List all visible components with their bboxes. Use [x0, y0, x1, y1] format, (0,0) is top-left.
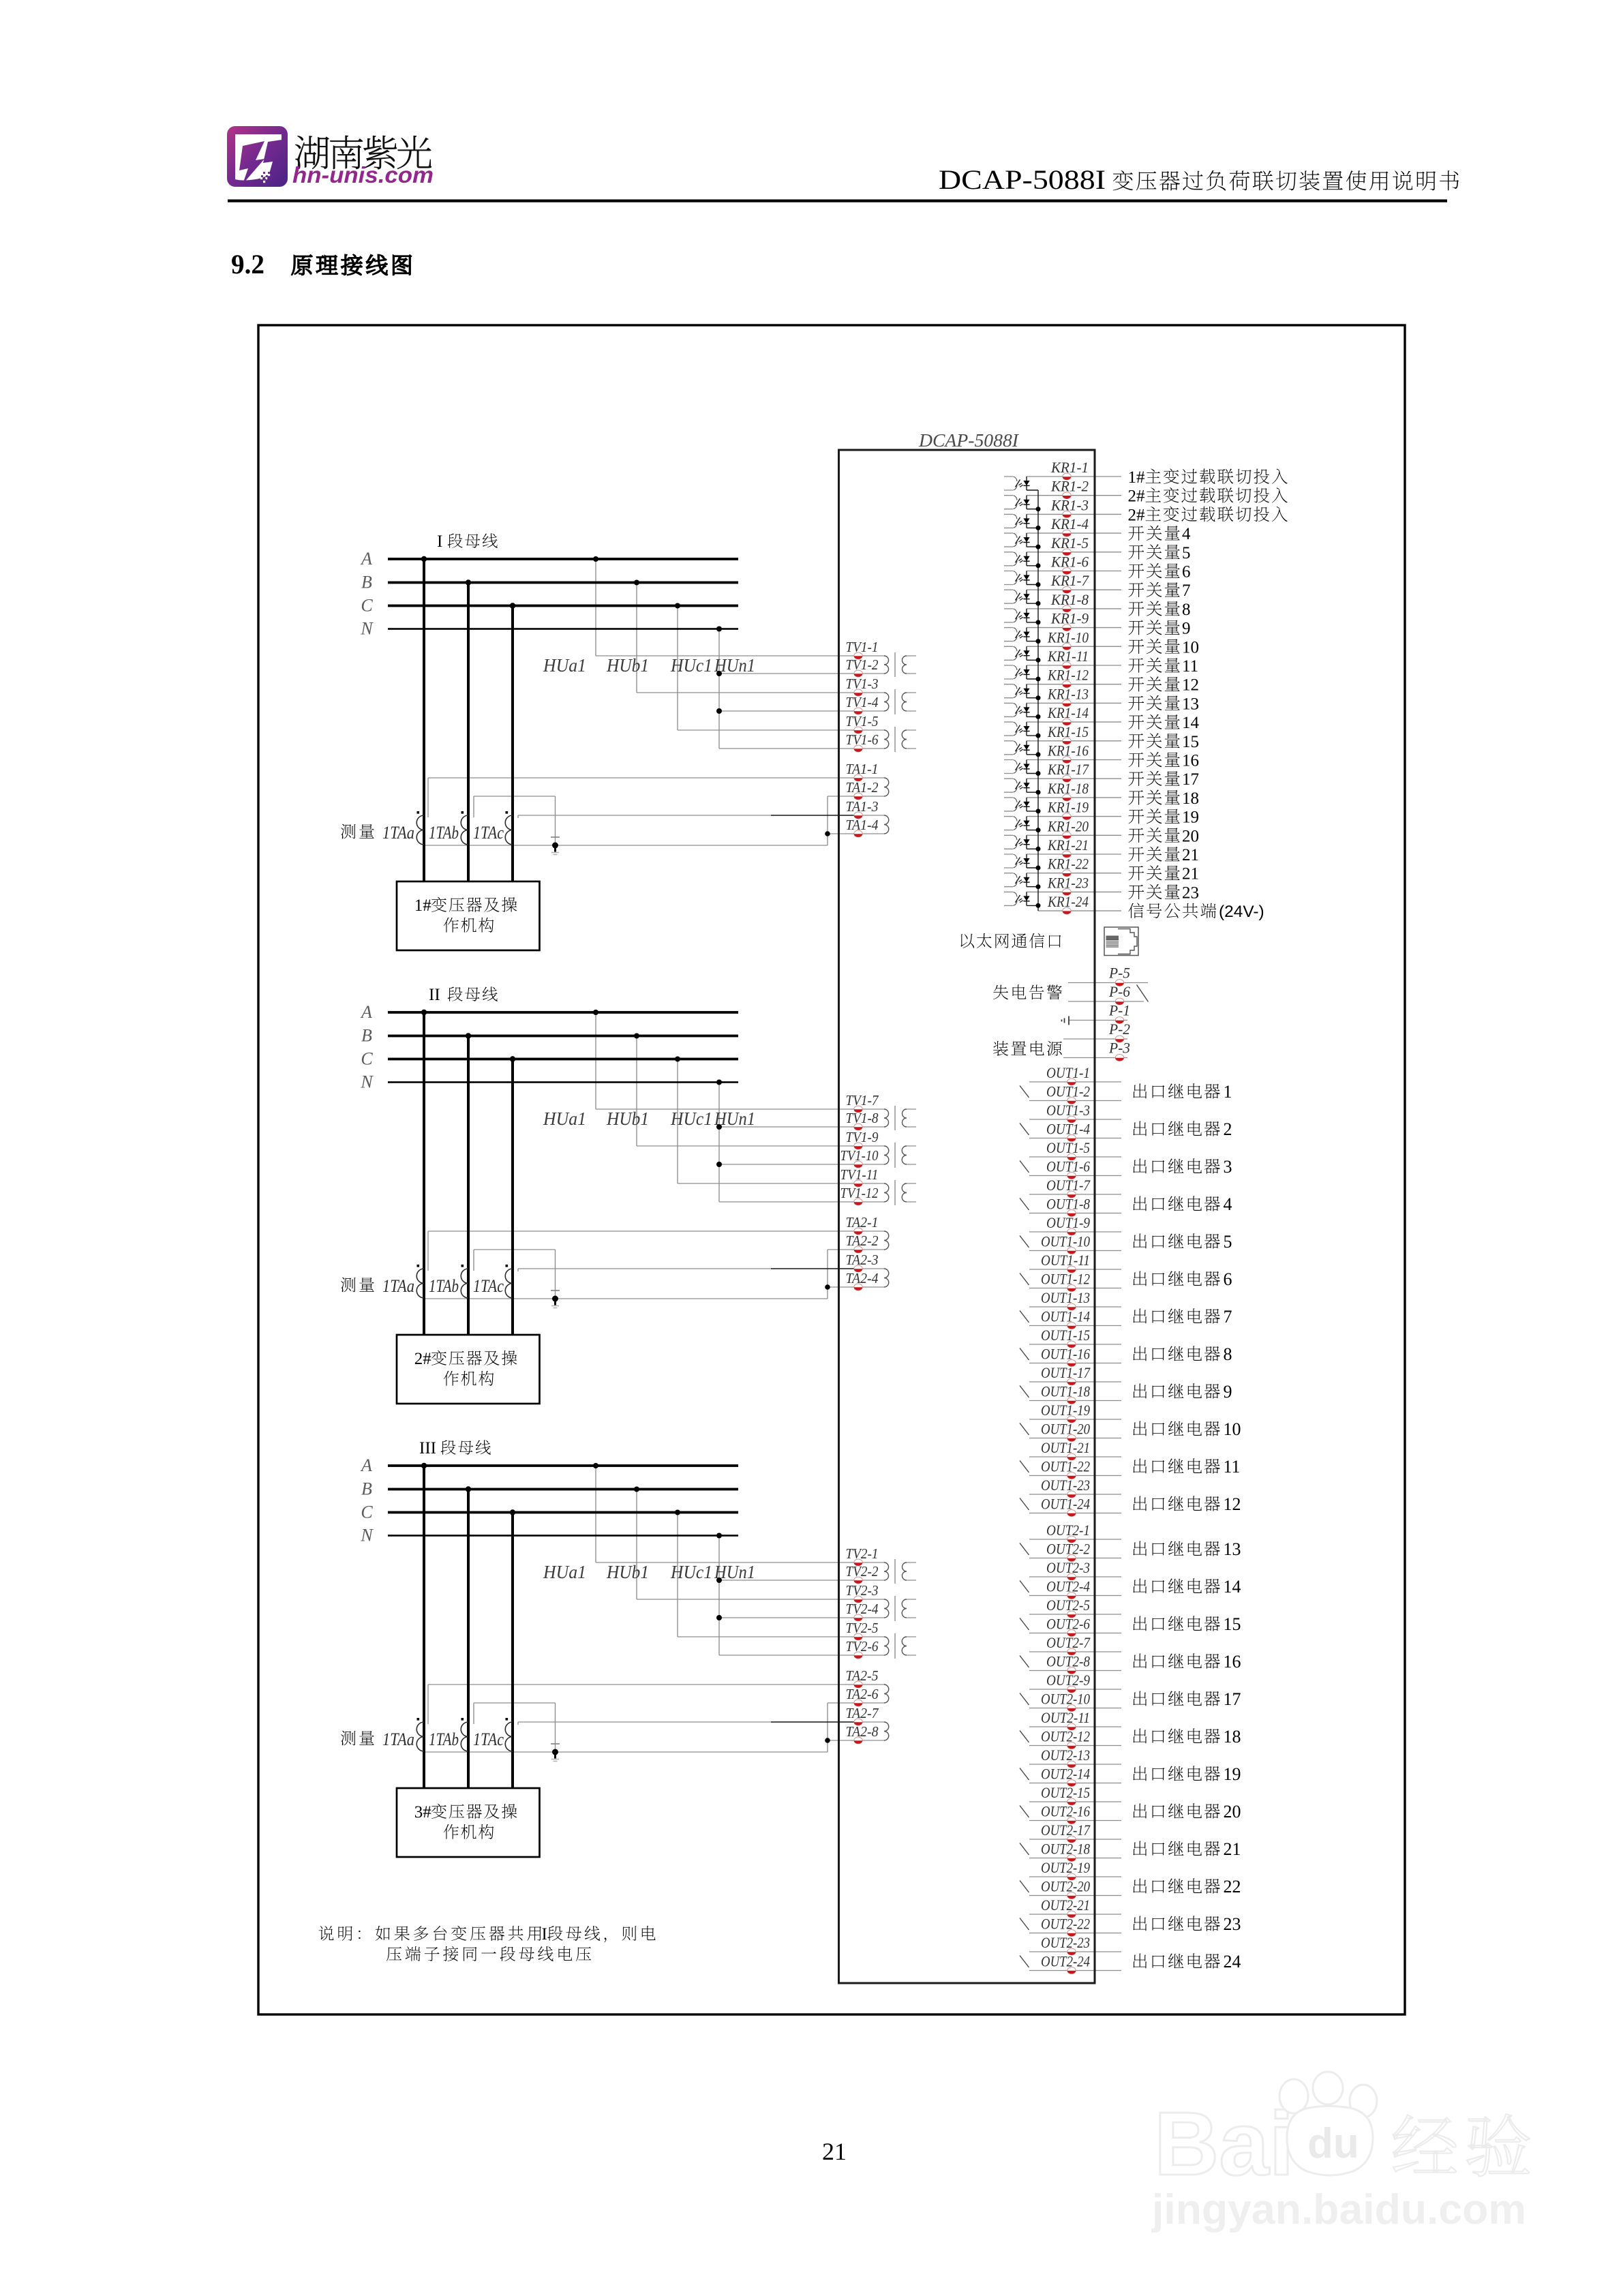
svg-text:HUb1: HUb1 — [606, 1562, 649, 1582]
svg-text:17: 17 — [1182, 770, 1199, 789]
svg-text:3#: 3# — [414, 1803, 432, 1822]
svg-text:15: 15 — [1182, 733, 1199, 751]
svg-text:A: A — [360, 549, 372, 569]
svg-text:OUT2-20: OUT2-20 — [1041, 1878, 1090, 1895]
svg-text:A: A — [360, 1002, 372, 1022]
svg-text:23: 23 — [1224, 1914, 1241, 1934]
svg-text:2: 2 — [1224, 1119, 1232, 1139]
svg-text:9.2: 9.2 — [231, 249, 264, 280]
svg-text:OUT1-1: OUT1-1 — [1046, 1064, 1090, 1081]
svg-text:OUT1-6: OUT1-6 — [1046, 1158, 1090, 1175]
svg-text:OUT2-3: OUT2-3 — [1046, 1559, 1090, 1576]
svg-text:HUc1: HUc1 — [670, 655, 712, 676]
svg-text:14: 14 — [1224, 1577, 1241, 1597]
svg-text:TA1-1: TA1-1 — [846, 761, 879, 777]
svg-text:OUT1-15: OUT1-15 — [1041, 1327, 1090, 1344]
svg-text:OUT1-5: OUT1-5 — [1046, 1139, 1090, 1156]
svg-text:11: 11 — [1224, 1457, 1241, 1477]
svg-text:HUa1: HUa1 — [543, 1562, 586, 1582]
svg-text:TA1-2: TA1-2 — [846, 779, 879, 796]
svg-text:HUc1: HUc1 — [670, 1562, 712, 1582]
svg-text:1TAa: 1TAa — [382, 1276, 414, 1296]
svg-text:7: 7 — [1224, 1307, 1232, 1327]
svg-text:OUT2-10: OUT2-10 — [1041, 1691, 1090, 1708]
svg-text:OUT2-5: OUT2-5 — [1046, 1597, 1090, 1614]
svg-text:1#: 1# — [414, 896, 432, 915]
svg-text:KR1-1: KR1-1 — [1050, 459, 1089, 476]
svg-text:TA2-6: TA2-6 — [846, 1686, 879, 1702]
svg-text:3: 3 — [1224, 1157, 1232, 1177]
svg-text:OUT1-7: OUT1-7 — [1046, 1177, 1091, 1194]
svg-text:5: 5 — [1182, 544, 1191, 562]
svg-text:KR1-8: KR1-8 — [1050, 591, 1089, 608]
svg-text:11: 11 — [1182, 657, 1198, 676]
svg-text:TV1-2: TV1-2 — [846, 656, 879, 673]
svg-text:10: 10 — [1224, 1419, 1241, 1439]
svg-text:TV1-7: TV1-7 — [846, 1092, 879, 1108]
svg-text:17: 17 — [1224, 1689, 1241, 1709]
svg-text:9: 9 — [1224, 1382, 1232, 1402]
svg-text:OUT2-24: OUT2-24 — [1041, 1953, 1090, 1970]
svg-text:jingyan.baidu.com: jingyan.baidu.com — [1151, 2186, 1526, 2233]
svg-text:1TAb: 1TAb — [429, 1729, 459, 1749]
svg-text:HUc1: HUc1 — [670, 1108, 712, 1129]
svg-text:TA1-4: TA1-4 — [846, 817, 879, 833]
svg-text:du: du — [1307, 2120, 1359, 2167]
svg-text:2#: 2# — [1128, 487, 1146, 506]
svg-text:OUT2-6: OUT2-6 — [1046, 1616, 1090, 1633]
svg-text:TA2-3: TA2-3 — [846, 1252, 879, 1268]
svg-text:HUa1: HUa1 — [543, 1108, 586, 1129]
svg-text:6: 6 — [1224, 1269, 1232, 1289]
svg-text:III: III — [419, 1439, 436, 1457]
svg-text:21: 21 — [1182, 846, 1199, 864]
svg-text:OUT1-18: OUT1-18 — [1041, 1383, 1090, 1400]
svg-text:OUT1-14: OUT1-14 — [1041, 1308, 1090, 1325]
svg-text:13: 13 — [1182, 695, 1199, 713]
svg-text:OUT1-21: OUT1-21 — [1041, 1439, 1090, 1456]
svg-text:KR1-3: KR1-3 — [1050, 496, 1089, 513]
svg-text:KR1-9: KR1-9 — [1050, 610, 1089, 627]
svg-text:19: 19 — [1182, 809, 1199, 827]
svg-text:22: 22 — [1224, 1877, 1241, 1897]
svg-text:OUT1-24: OUT1-24 — [1041, 1496, 1090, 1513]
svg-text:2#: 2# — [1128, 506, 1146, 524]
svg-text:OUT1-22: OUT1-22 — [1041, 1458, 1090, 1475]
svg-text:18: 18 — [1182, 789, 1199, 808]
svg-text:OUT2-21: OUT2-21 — [1041, 1897, 1090, 1914]
svg-text:OUT2-16: OUT2-16 — [1041, 1803, 1090, 1820]
svg-text:1: 1 — [1224, 1082, 1232, 1102]
svg-text:TV1-6: TV1-6 — [846, 731, 879, 748]
svg-text:13: 13 — [1224, 1539, 1241, 1559]
svg-text:12: 12 — [1182, 676, 1199, 695]
svg-text:I: I — [437, 532, 442, 551]
svg-text:N: N — [360, 619, 374, 639]
svg-text:OUT2-2: OUT2-2 — [1046, 1541, 1090, 1558]
svg-text:TV2-1: TV2-1 — [846, 1545, 879, 1562]
svg-text:6: 6 — [1182, 563, 1191, 581]
svg-text:OUT2-14: OUT2-14 — [1041, 1766, 1090, 1783]
svg-text:C: C — [361, 1502, 373, 1522]
svg-text:TV2-4: TV2-4 — [846, 1601, 879, 1617]
svg-text:23: 23 — [1182, 883, 1199, 902]
svg-text:OUT2-1: OUT2-1 — [1046, 1522, 1090, 1539]
svg-text:TV2-6: TV2-6 — [846, 1638, 879, 1655]
svg-text:KR1-2: KR1-2 — [1050, 478, 1089, 495]
svg-text:OUT2-23: OUT2-23 — [1041, 1934, 1090, 1951]
svg-text:B: B — [361, 573, 372, 592]
svg-text:A: A — [360, 1455, 372, 1475]
svg-text:8: 8 — [1224, 1344, 1232, 1364]
svg-text:OUT1-12: OUT1-12 — [1041, 1271, 1090, 1288]
svg-text:4: 4 — [1182, 525, 1191, 543]
svg-text:TA2-5: TA2-5 — [846, 1667, 879, 1684]
svg-text:II: II — [429, 986, 440, 1004]
svg-text:16: 16 — [1224, 1652, 1241, 1672]
svg-text:1TAb: 1TAb — [429, 1276, 459, 1296]
svg-text:DCAP-5088I: DCAP-5088I — [939, 164, 1106, 195]
svg-text:1TAc: 1TAc — [473, 823, 504, 843]
svg-text:2#: 2# — [414, 1350, 432, 1368]
svg-text:14: 14 — [1182, 714, 1200, 732]
svg-text:20: 20 — [1182, 827, 1199, 845]
svg-text:I: I — [542, 1925, 547, 1944]
svg-text:N: N — [360, 1526, 374, 1545]
svg-text:TA2-7: TA2-7 — [846, 1705, 879, 1721]
svg-text:TA2-4: TA2-4 — [846, 1270, 879, 1286]
svg-text:HUb1: HUb1 — [606, 655, 649, 676]
svg-text:TV2-5: TV2-5 — [846, 1620, 879, 1636]
svg-text:KR1-6: KR1-6 — [1050, 554, 1089, 571]
svg-text:OUT2-22: OUT2-22 — [1041, 1916, 1090, 1933]
svg-text:TA2-1: TA2-1 — [846, 1214, 879, 1230]
svg-text:OUT1-3: OUT1-3 — [1046, 1102, 1090, 1119]
svg-text:TV1-8: TV1-8 — [846, 1110, 879, 1126]
svg-text:5: 5 — [1224, 1232, 1232, 1252]
svg-text:hn-unis.com: hn-unis.com — [292, 162, 434, 187]
svg-text:OUT2-15: OUT2-15 — [1041, 1784, 1090, 1801]
svg-text:TV1-1: TV1-1 — [846, 639, 879, 655]
svg-text:9: 9 — [1182, 620, 1191, 638]
svg-text:TA1-3: TA1-3 — [846, 798, 879, 815]
svg-text:OUT2-18: OUT2-18 — [1041, 1841, 1090, 1858]
svg-text:1#: 1# — [1128, 468, 1146, 487]
svg-text:OUT1-8: OUT1-8 — [1046, 1196, 1090, 1213]
svg-text:OUT2-4: OUT2-4 — [1046, 1578, 1090, 1595]
svg-text:TV2-2: TV2-2 — [846, 1563, 879, 1580]
svg-text:21: 21 — [1224, 1839, 1241, 1859]
svg-text:18: 18 — [1224, 1727, 1241, 1747]
svg-text:OUT1-19: OUT1-19 — [1041, 1402, 1090, 1419]
svg-text:C: C — [361, 1049, 373, 1069]
svg-text:24: 24 — [1224, 1952, 1241, 1972]
svg-text:KR1-7: KR1-7 — [1050, 572, 1089, 589]
svg-text:TV2-3: TV2-3 — [846, 1582, 879, 1599]
svg-text:OUT2-17: OUT2-17 — [1041, 1822, 1091, 1839]
svg-text:OUT2-13: OUT2-13 — [1041, 1747, 1090, 1764]
svg-text:B: B — [361, 1026, 372, 1046]
svg-text:TV1-9: TV1-9 — [846, 1129, 879, 1145]
svg-text:OUT1-11: OUT1-11 — [1041, 1252, 1090, 1269]
svg-text:OUT1-10: OUT1-10 — [1041, 1233, 1090, 1250]
svg-text:Bai: Bai — [1154, 2094, 1294, 2194]
svg-text:TV1-3: TV1-3 — [846, 676, 879, 692]
svg-text:12: 12 — [1224, 1494, 1241, 1514]
svg-text:OUT1-23: OUT1-23 — [1041, 1477, 1090, 1494]
svg-text:KR1-4: KR1-4 — [1050, 515, 1089, 532]
svg-text:OUT2-12: OUT2-12 — [1041, 1728, 1090, 1745]
svg-text:N: N — [360, 1072, 374, 1092]
svg-text:(24V-): (24V-) — [1219, 903, 1264, 921]
svg-text:8: 8 — [1182, 601, 1191, 619]
svg-text:16: 16 — [1182, 752, 1199, 770]
svg-text:KR1-5: KR1-5 — [1050, 534, 1089, 552]
svg-text:OUT1-9: OUT1-9 — [1046, 1214, 1090, 1231]
svg-text:OUT1-17: OUT1-17 — [1041, 1364, 1091, 1381]
svg-text:21: 21 — [822, 2138, 847, 2165]
svg-text:TV1-5: TV1-5 — [846, 713, 879, 729]
svg-text:1TAa: 1TAa — [382, 823, 414, 843]
svg-text:TA2-2: TA2-2 — [846, 1233, 879, 1249]
svg-text:TV1-4: TV1-4 — [846, 694, 879, 710]
svg-text:B: B — [361, 1479, 372, 1499]
svg-text:OUT1-13: OUT1-13 — [1041, 1289, 1090, 1306]
svg-text:1TAc: 1TAc — [473, 1729, 504, 1749]
svg-text:OUT2-11: OUT2-11 — [1041, 1709, 1090, 1726]
svg-text:OUT2-9: OUT2-9 — [1046, 1672, 1090, 1689]
svg-text:OUT1-4: OUT1-4 — [1046, 1121, 1090, 1138]
svg-text:TA2-8: TA2-8 — [846, 1723, 879, 1740]
svg-text:OUT1-20: OUT1-20 — [1041, 1421, 1090, 1438]
svg-text:OUT2-19: OUT2-19 — [1041, 1859, 1090, 1876]
svg-text:C: C — [361, 596, 373, 616]
svg-text:OUT1-2: OUT1-2 — [1046, 1083, 1090, 1100]
svg-text:HUa1: HUa1 — [543, 655, 586, 676]
svg-text:19: 19 — [1224, 1764, 1241, 1784]
svg-text:7: 7 — [1182, 581, 1191, 600]
svg-text:1TAb: 1TAb — [429, 823, 459, 843]
svg-text:21: 21 — [1182, 865, 1199, 883]
svg-text:20: 20 — [1224, 1802, 1241, 1822]
svg-text:15: 15 — [1224, 1614, 1241, 1634]
svg-text:1TAc: 1TAc — [473, 1276, 504, 1296]
svg-text:10: 10 — [1182, 638, 1199, 656]
svg-text:DCAP-5088I: DCAP-5088I — [918, 430, 1020, 451]
svg-text:4: 4 — [1224, 1194, 1232, 1214]
svg-text:HUb1: HUb1 — [606, 1108, 649, 1129]
svg-text:OUT2-8: OUT2-8 — [1046, 1653, 1090, 1670]
svg-text:OUT1-16: OUT1-16 — [1041, 1346, 1090, 1363]
svg-text:P-5: P-5 — [1108, 965, 1130, 982]
svg-text:OUT2-7: OUT2-7 — [1046, 1634, 1091, 1651]
svg-text:1TAa: 1TAa — [382, 1729, 414, 1749]
